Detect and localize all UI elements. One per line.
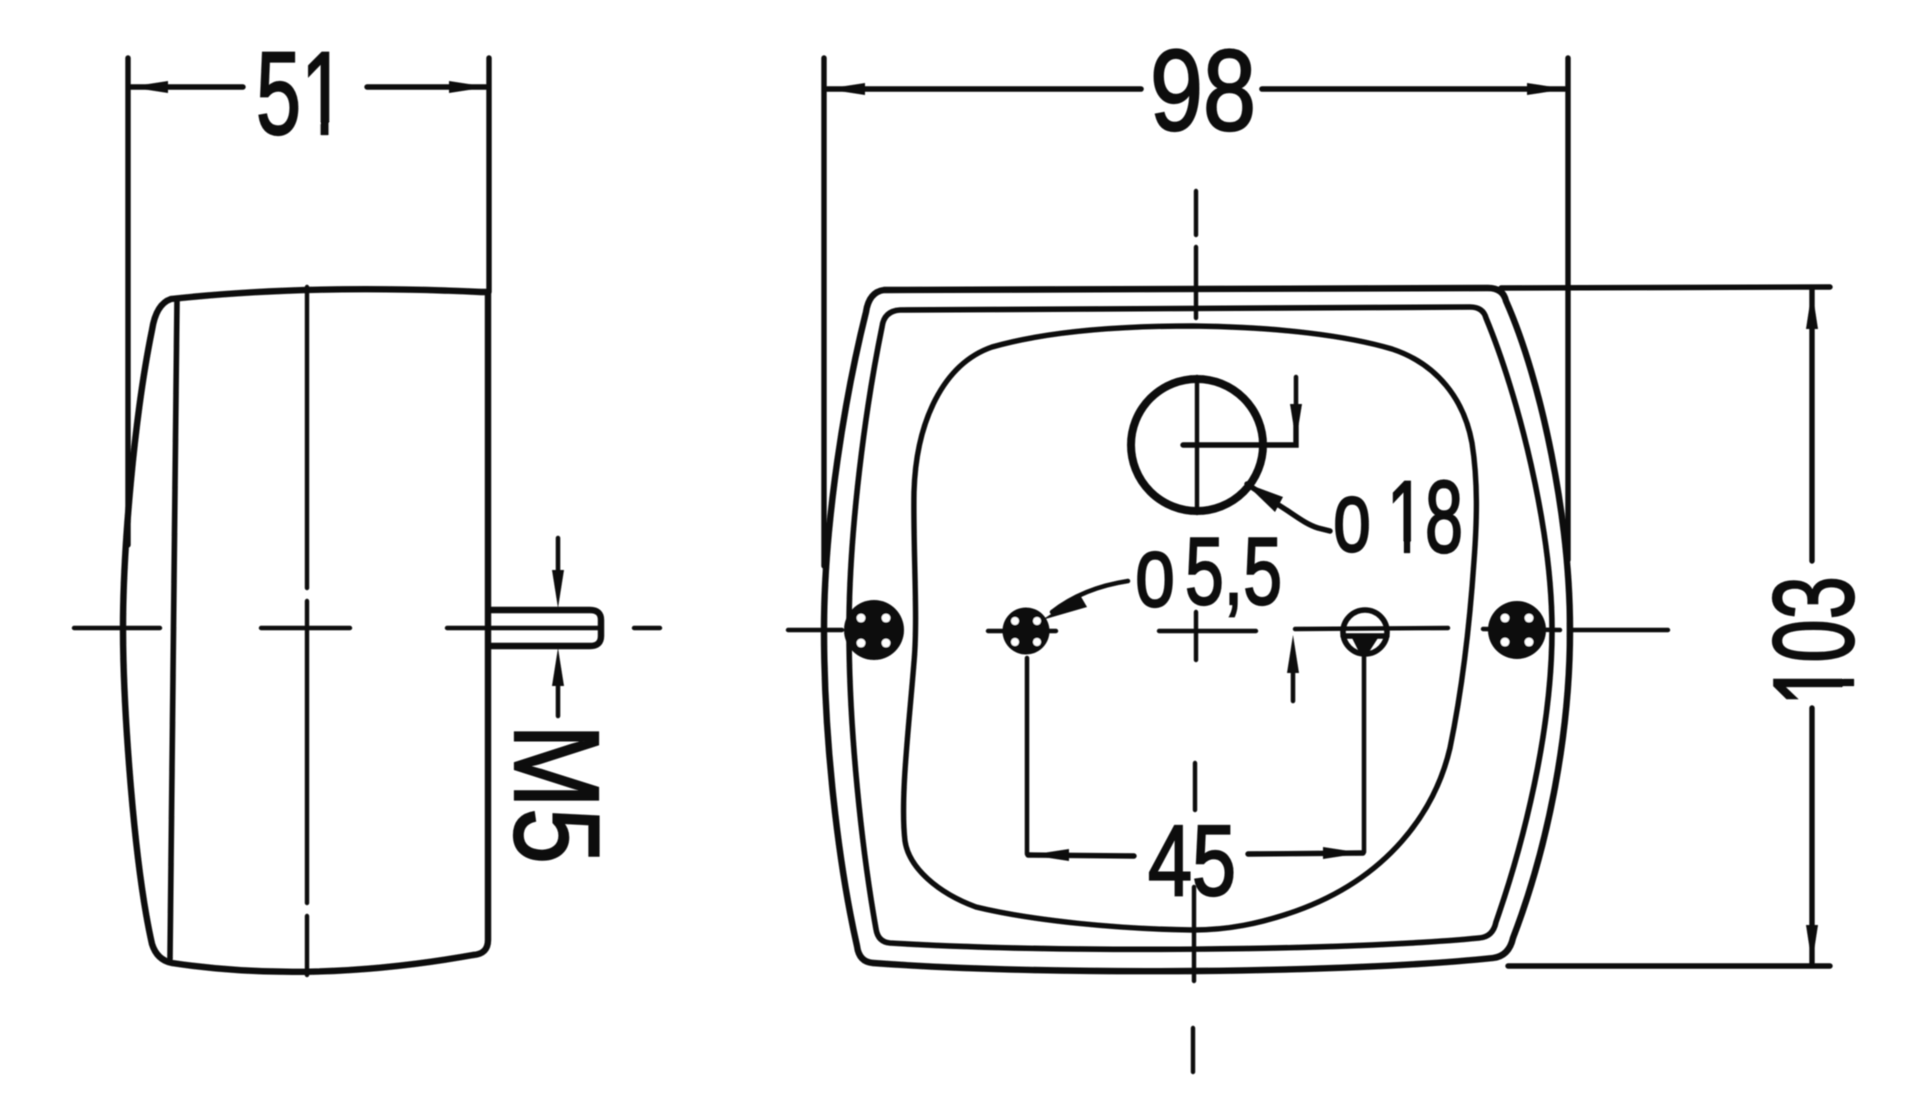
dimension 45: right extension line [1362, 656, 1367, 852]
dimension 103: top arrowhead [1806, 290, 1818, 329]
screw right (black, phillips) [1488, 601, 1546, 659]
svg-text:98: 98 [1150, 27, 1256, 155]
dimension 45: right arrowhead [1323, 847, 1362, 859]
hole d18: elbow arrowhead pointing down [1290, 404, 1302, 441]
hole d18: elbow line tail [1294, 377, 1299, 406]
svg-text:18: 18 [1387, 460, 1463, 574]
left view: lens seam line [170, 299, 177, 959]
right view: vertical centerline [1193, 191, 1197, 1072]
arrow pointing up below centerline [1291, 673, 1296, 701]
dimension 45: dim line left segment [1028, 855, 1134, 856]
dimension 103: bottom arrowhead [1806, 925, 1818, 964]
dimension 103: bottom extension line [1508, 963, 1830, 968]
dimension 51: extension line right [486, 58, 491, 292]
dimension 98: left arrowhead [826, 83, 865, 95]
M5 stud [490, 610, 601, 646]
hole d5.5 right (slotted) [1343, 610, 1387, 654]
dimension 98: extension line right [1565, 58, 1570, 560]
M5 dim: upper arrow [556, 538, 561, 574]
dimension 51: dim line left segment [130, 84, 243, 89]
left view: horizontal centerline [74, 626, 660, 630]
patch: remove foot serif of digit 1 in 18 [1391, 542, 1404, 556]
svg-text:5,5: 5,5 [1185, 518, 1282, 625]
patch: remove foot serif of digit 1 in 51 [305, 123, 320, 137]
right view: centerline tick at right edge [1567, 605, 1571, 657]
patch: remove foot serif of digit 1 in 103 [1843, 664, 1857, 679]
dimension 98: dim line right segment [1262, 86, 1566, 92]
dimension 51: left arrowhead [129, 81, 168, 93]
left view: housing outline [123, 289, 488, 972]
dimension 51: extension line left [125, 58, 130, 545]
hole d5.5 left (black, phillips) [1003, 608, 1050, 655]
label o18: leader arrow from circle [1247, 484, 1330, 531]
dimension 51: dim line right segment [367, 84, 488, 89]
svg-text:51: 51 [256, 28, 346, 160]
dimension 103: top extension line [1501, 287, 1830, 288]
left view: vertical centerline [305, 287, 309, 975]
dimension 45: left extension line [1025, 658, 1030, 854]
dimension 98: right arrowhead [1527, 83, 1566, 95]
right view: outer housing outline [824, 288, 1570, 971]
hole d18 [1131, 379, 1263, 511]
dimension 45: left arrowhead [1030, 849, 1069, 861]
hole d18: horizontal center tick and elbow [1183, 406, 1296, 445]
dimension 45: dim line right segment [1248, 853, 1363, 854]
right view: inner border line [849, 307, 1552, 949]
svg-text:M5: M5 [489, 724, 625, 864]
svg-text:45: 45 [1148, 805, 1236, 917]
dimension 103: value text (rotated) [1751, 576, 1878, 706]
right view: horizontal centerline [788, 628, 1668, 631]
svg-text:o: o [1135, 516, 1175, 628]
dimension 103: dim line lower segment [1809, 708, 1814, 964]
M5 dim: lower arrow [556, 682, 561, 716]
right view: lens outline [904, 326, 1477, 930]
dimension 51: right arrowhead [449, 81, 488, 93]
svg-text:o: o [1333, 461, 1371, 573]
dimension 103: dim line upper segment [1809, 290, 1814, 561]
svg-text:103: 103 [1751, 576, 1878, 706]
dimension 98: extension line left [821, 58, 826, 566]
M5 label (rotated) [489, 724, 625, 864]
label o5,5: leader arrow to left hole [1052, 581, 1128, 612]
screw left (black, phillips) [844, 600, 904, 660]
dimension 98: dim line left segment [826, 86, 1141, 92]
